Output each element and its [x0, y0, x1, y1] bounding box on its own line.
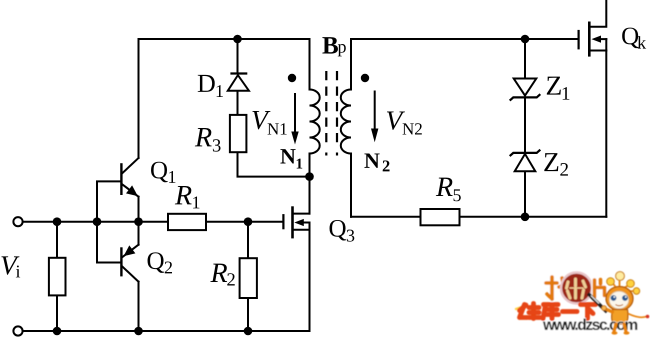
- svg-text:i: i: [15, 261, 20, 281]
- svg-text:2: 2: [226, 270, 235, 290]
- svg-text:N1: N1: [267, 119, 288, 138]
- svg-text:3: 3: [346, 226, 355, 246]
- svg-text:B: B: [322, 32, 339, 59]
- svg-text:2: 2: [164, 257, 173, 277]
- svg-text:R: R: [209, 258, 227, 289]
- svg-text:D: D: [197, 69, 216, 98]
- svg-text:N: N: [280, 143, 296, 168]
- svg-text:N: N: [364, 148, 380, 173]
- svg-text:1: 1: [191, 192, 200, 212]
- svg-text:5: 5: [452, 185, 461, 205]
- svg-text:1: 1: [215, 81, 224, 101]
- svg-text:2: 2: [382, 156, 390, 175]
- svg-text:p: p: [338, 37, 347, 57]
- svg-text:k: k: [637, 33, 646, 53]
- svg-text:R: R: [435, 172, 453, 203]
- svg-text:Z: Z: [543, 146, 560, 177]
- svg-text:1: 1: [561, 84, 571, 105]
- svg-text:Q: Q: [146, 248, 164, 275]
- svg-text:Q: Q: [328, 216, 346, 243]
- svg-text:2: 2: [559, 160, 569, 181]
- svg-text:N2: N2: [402, 120, 423, 139]
- svg-text:R: R: [174, 180, 192, 211]
- svg-text:R: R: [194, 122, 212, 153]
- svg-text:Z: Z: [546, 70, 563, 101]
- svg-text:3: 3: [212, 136, 221, 156]
- svg-text:1: 1: [295, 156, 303, 172]
- svg-text:Q: Q: [150, 157, 168, 184]
